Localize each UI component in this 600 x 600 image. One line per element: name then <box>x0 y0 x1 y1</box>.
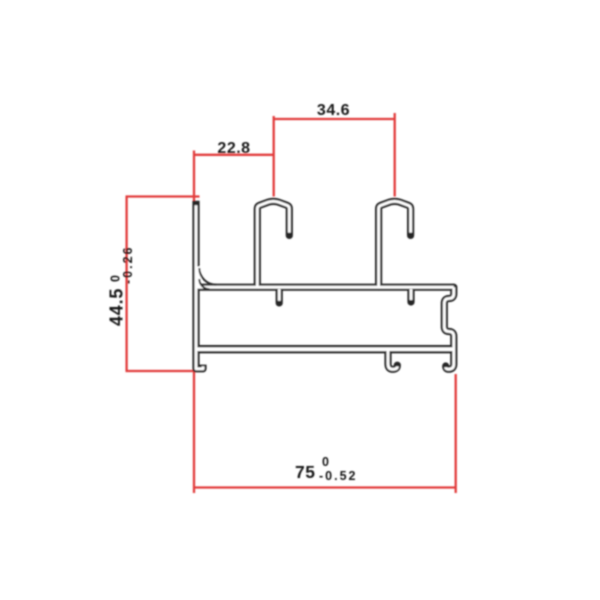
web tab 2 <box>407 289 414 302</box>
dim line 75 <box>194 486 456 488</box>
bottom web core <box>196 347 454 351</box>
web tab 1 <box>276 289 283 303</box>
label 44.5 rotated <box>107 246 136 327</box>
dim extension line C (hook2 center) <box>394 113 396 197</box>
svg-text:34.6: 34.6 <box>317 102 350 119</box>
svg-text:22.8: 22.8 <box>217 140 250 157</box>
fillet mask <box>197 267 202 287</box>
svg-text:75: 75 <box>295 462 315 482</box>
hook 1 core <box>257 201 289 287</box>
fillet big arc <box>199 268 216 285</box>
dim extension line A (left, x=194) <box>193 151 195 494</box>
dim 44.5 top extension <box>126 195 200 197</box>
bottom web <box>196 345 454 353</box>
dim line 22.8 <box>194 154 274 156</box>
hook 2 core <box>379 201 411 287</box>
hook 1 <box>257 201 289 287</box>
svg-text:0: 0 <box>322 455 329 469</box>
dim line 34.6 <box>274 118 395 120</box>
hook 2 <box>379 201 411 287</box>
dim 44.5 bottom extension <box>126 370 195 372</box>
left wall + foot core <box>196 205 203 368</box>
web tab 1 core <box>278 289 281 301</box>
dim 44.5 vertical line <box>125 197 127 372</box>
middle web core <box>196 286 454 289</box>
dim extension line right (x=455.7) <box>455 374 457 493</box>
svg-text:44.5: 44.5 <box>107 288 127 326</box>
left wall + bottom foot <box>196 201 203 369</box>
fillet small arc <box>199 279 209 289</box>
middle web <box>196 284 454 291</box>
bottom snap tab <box>388 351 397 369</box>
right wall with groove <box>444 287 454 369</box>
bottom snap tab core <box>388 351 397 369</box>
svg-text:-0.52: -0.52 <box>319 469 358 483</box>
web tab 2 core <box>410 289 413 300</box>
svg-text:-0.26: -0.26 <box>121 246 135 285</box>
fillet arcs at left wall / middle web junction <box>199 268 216 289</box>
right wall core <box>444 287 454 369</box>
dim extension line B (hook1 center) <box>273 116 275 197</box>
